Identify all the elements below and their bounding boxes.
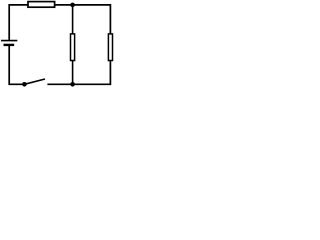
wire top-left from battery positive up and right to R1 xyxy=(9,5,28,40)
wire R2 bottom to bottom rail xyxy=(72,61,74,85)
resistor R1 xyxy=(28,2,55,8)
wire from R1 to top-right corner xyxy=(55,4,111,6)
resistor R3 xyxy=(108,34,112,61)
wire R3 bottom to bottom-right corner then left along bottom xyxy=(47,61,110,85)
wire middle branch down to R2 xyxy=(72,5,74,34)
node junction bottom xyxy=(70,82,75,87)
wire right rail down from top-right corner to R3 xyxy=(109,4,111,34)
node junction top xyxy=(70,3,75,8)
switch S1 pivot contact xyxy=(22,82,27,87)
switch S1 lever xyxy=(24,79,45,84)
wire bottom-left from switch to corner and up to battery negative xyxy=(9,45,24,84)
battery V1 negative plate (short thick) xyxy=(4,44,15,46)
resistor R2 xyxy=(71,34,75,61)
battery V1 positive plate (long) xyxy=(1,40,17,42)
